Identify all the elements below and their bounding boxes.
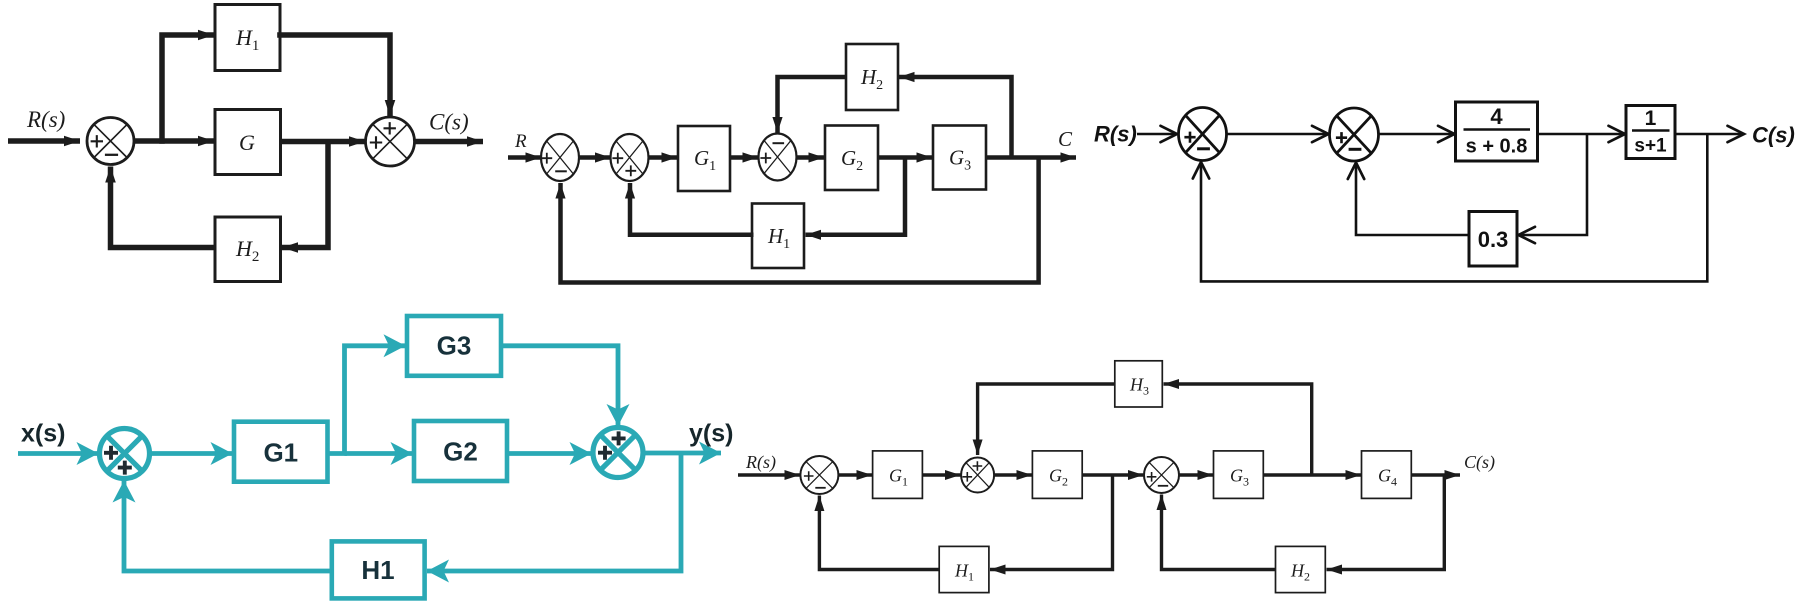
wire: riser after G3 up to block H3: [1164, 384, 1312, 475]
wire: branch node up to block H1: [162, 35, 214, 144]
wire: H2 output down into S3 (top): [778, 77, 847, 133]
block G2 (diagram 2): [825, 126, 878, 191]
label C(s): [1464, 452, 1495, 473]
block G: [215, 110, 281, 175]
wire: branch node after G down to block H2: [282, 142, 328, 248]
wire: G output to summing junction S2: [281, 139, 366, 145]
wire: input R(s) to summing junction S1: [1137, 133, 1177, 136]
block H2: [215, 217, 281, 282]
wire: G3 output to C: [986, 155, 1076, 160]
svg-text:C(s): C(s): [429, 110, 469, 135]
wire: S1 output to block G: [134, 138, 214, 144]
wire: G2 to block G3 with branch node: [878, 155, 932, 160]
summing junction S2: [366, 117, 415, 166]
wire: S2 to block G2: [994, 473, 1032, 476]
wire: input R to summing junction S1: [508, 155, 541, 160]
svg-text:4: 4: [1490, 104, 1503, 129]
label C(s): [1752, 123, 1795, 148]
block H1 (diagram 5): [939, 546, 989, 592]
svg-text:0.3: 0.3: [1478, 227, 1509, 252]
svg-text:R(s): R(s): [26, 107, 65, 132]
block H1 (diagram 2): [752, 204, 804, 269]
wire: S2 to block 4/(s+0.8): [1379, 133, 1455, 136]
block 0.3: [1469, 212, 1517, 267]
wire: G1 output branch node up to block G3: [328, 346, 406, 456]
block G3 (diagram 2): [933, 126, 986, 190]
wire: G1 to summing junction S3: [730, 155, 758, 160]
wire: branch on output down to block H1: [427, 453, 681, 571]
wire: H1 output up into S1 (bottom): [819, 496, 939, 570]
wire: G4 output to C(s): [1411, 473, 1460, 476]
wire: H2 output up into S3 (bottom): [1162, 495, 1276, 570]
label R(s): [1094, 122, 1137, 147]
svg-text:s + 0.8: s + 0.8: [1466, 136, 1528, 158]
label C: [1058, 127, 1073, 151]
summing junction S2 (diagram 4): [593, 428, 643, 478]
summing junction S1 (diagram 4): [100, 429, 150, 479]
wire: outer feedback from output down and back to S1 (bottom): [1201, 134, 1707, 281]
block G1 (diagram 2): [678, 126, 730, 191]
label R(s): [26, 107, 65, 132]
wire: G1 to summing junction S2: [922, 473, 960, 476]
wire: outer feedback from output down and back to S1 (bottom): [561, 158, 1039, 283]
block G2 (diagram 4): [414, 421, 507, 481]
summing junction S3 (diagram 2): [759, 134, 797, 181]
wire: S1 to block G1: [838, 473, 872, 476]
block G2 (diagram 5): [1032, 451, 1082, 499]
wire: G3 to block G4 with branch node: [1263, 473, 1361, 476]
block H2 (diagram 2): [846, 44, 898, 110]
block H3 (diagram 5): [1115, 361, 1163, 407]
wire: branch between blocks down into block 0.3: [1519, 134, 1588, 235]
summing junction S2 (diagram 5): [961, 458, 994, 493]
block G4 (diagram 5): [1362, 451, 1412, 499]
summing junction S1 (diagram 3): [1179, 108, 1227, 161]
wire: H3 output down into S2 (top): [978, 384, 1115, 455]
wire: S2 output C(s): [415, 139, 484, 145]
svg-text:H1: H1: [361, 555, 394, 585]
wire: S1 to block G1: [150, 451, 233, 456]
block G1 (diagram 4): [234, 422, 328, 482]
wire: G2 output to S2: [507, 451, 592, 456]
wire: H2 output up into S1 (bottom): [111, 167, 216, 248]
summing junction S2 (diagram 3): [1330, 108, 1379, 161]
wire: H1 output up into S1 (bottom): [124, 481, 332, 572]
wire: S2 output y(s): [643, 451, 721, 456]
block H1 (diagram 4): [332, 541, 425, 598]
svg-text:R: R: [514, 131, 527, 152]
svg-text:R(s): R(s): [745, 452, 776, 473]
wire: S3 to block G3: [1179, 473, 1213, 476]
label C(s): [429, 110, 469, 135]
summing junction S1 (diagram 2): [541, 134, 579, 181]
wire: S1 to S2: [579, 155, 611, 160]
summing junction S2 (diagram 2): [611, 134, 649, 181]
wire: block2 output to C(s): [1675, 133, 1744, 136]
wire: block1 to block 1/(s+1) with branch node: [1538, 133, 1625, 136]
summing junction S1: [87, 118, 134, 165]
wire: input R(s) to summing junction S1: [8, 138, 80, 144]
summing junction S3 (diagram 5): [1144, 457, 1179, 493]
wire: H1 output down into summing junction S2 (top): [277, 35, 390, 116]
block G1 (diagram 5): [873, 451, 923, 499]
summing junction S1 (diagram 5): [800, 456, 838, 494]
block H2 (diagram 5): [1276, 546, 1326, 592]
wire: branch after G2 down to block H1: [806, 158, 906, 235]
svg-text:x(s): x(s): [21, 420, 65, 448]
label R(s): [745, 452, 776, 473]
svg-text:R(s): R(s): [1094, 122, 1137, 147]
svg-text:y(s): y(s): [689, 420, 733, 448]
label x(s): [21, 420, 65, 448]
wire: riser from output line up to block H2: [899, 77, 1012, 158]
wire: branch after G2 down to block H1: [990, 475, 1113, 570]
block G3 (diagram 5): [1214, 451, 1264, 499]
wire: G3 output down into summing junction S2 (top): [501, 346, 618, 426]
wire: branch after G4 down to block H2: [1327, 475, 1445, 570]
label y(s): [689, 420, 733, 448]
block H1: [215, 5, 280, 71]
svg-text:G3: G3: [437, 331, 472, 361]
svg-text:G: G: [239, 130, 255, 155]
svg-text:C(s): C(s): [1464, 452, 1495, 473]
label R: [514, 131, 527, 152]
block G3 (diagram 4): [407, 316, 501, 376]
wire: 0.3 output up into S2 (bottom): [1356, 163, 1469, 236]
block 1/(s+1): [1626, 106, 1675, 159]
svg-text:C: C: [1058, 127, 1073, 151]
wire: S1 to S2: [1227, 133, 1329, 136]
wire: H1 output up into S2 (bottom): [630, 183, 754, 235]
wire: S2 to block G1: [649, 155, 678, 160]
svg-text:C(s): C(s): [1752, 123, 1795, 148]
block 4/(s+0.8): [1456, 102, 1538, 161]
wire: input x(s) to summing junction S1: [18, 451, 99, 456]
svg-text:G1: G1: [263, 438, 298, 468]
svg-text:1: 1: [1645, 107, 1657, 130]
svg-text:s+1: s+1: [1634, 136, 1667, 157]
svg-text:G2: G2: [443, 437, 478, 467]
wire: branch straight to block G2: [345, 451, 413, 456]
wire: input R(s) to summing junction S1: [738, 473, 800, 476]
wire: S3 to block G2: [797, 155, 825, 160]
wire: G2 to summing junction S3 with branch node: [1082, 473, 1143, 476]
